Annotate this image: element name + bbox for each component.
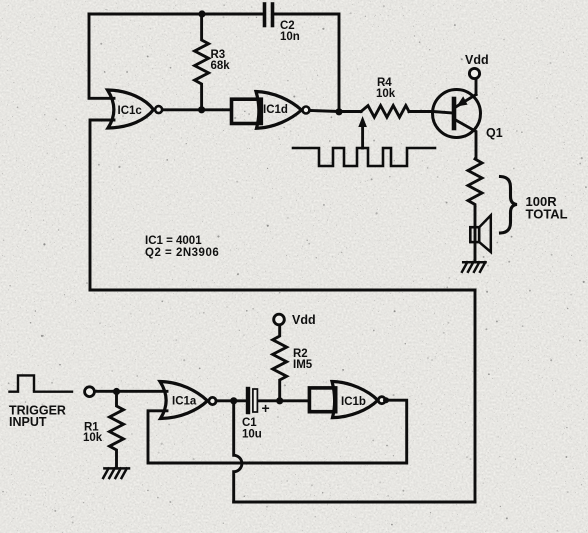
node monostable output junction bbox=[230, 397, 237, 404]
IC1a output bubble bbox=[209, 397, 216, 404]
brace 100R bbox=[501, 177, 518, 234]
svg-text:IC1d: IC1d bbox=[263, 104, 288, 116]
capacitor C1 bbox=[246, 389, 250, 412]
waveform square wave bbox=[293, 148, 435, 166]
speaker LS1 bbox=[479, 215, 491, 252]
power terminal Vdd (bottom) bbox=[274, 314, 285, 325]
NOR gate IC1b bbox=[332, 382, 378, 418]
IC1b input box (inputs tied) bbox=[309, 388, 335, 412]
Q1 emitter (to Vdd) bbox=[457, 79, 477, 107]
wire IC1c left vertical (top input from rail) bbox=[89, 14, 114, 98]
NOR gate IC1d bbox=[256, 92, 302, 129]
wire trigger to IC1a bbox=[95, 390, 168, 393]
svg-text:TOTAL: TOTAL bbox=[526, 207, 568, 222]
ground (R1) bbox=[103, 468, 129, 478]
resistor (speaker series) bbox=[468, 159, 482, 262]
node R3 bottom junction bbox=[198, 106, 205, 113]
node R2 bottom junction bbox=[276, 397, 283, 404]
wire feedback loop bottom horizontal bbox=[234, 501, 475, 504]
terminal trigger input bbox=[85, 387, 95, 397]
svg-text:Vdd: Vdd bbox=[465, 53, 489, 67]
svg-text:IC1 = 4001: IC1 = 4001 bbox=[145, 235, 202, 247]
resistor R2 bbox=[273, 325, 287, 400]
capacitor C2 bbox=[265, 4, 273, 26]
wire top rail bbox=[89, 13, 262, 16]
transistor Q1 bbox=[433, 90, 481, 138]
IC1d output bubble bbox=[303, 107, 310, 114]
wire C2 right to corner and down to output node bbox=[275, 14, 339, 111]
svg-text:10n: 10n bbox=[280, 31, 300, 43]
svg-text:IC1c: IC1c bbox=[118, 105, 143, 117]
wire IC1a lower input feedback bbox=[148, 400, 407, 463]
svg-text:IC1b: IC1b bbox=[341, 396, 366, 408]
node R1 junction bbox=[113, 388, 120, 395]
svg-text:Q1: Q1 bbox=[486, 126, 503, 140]
waveform arrow bbox=[361, 126, 364, 148]
ground (speaker) bbox=[462, 262, 486, 272]
wire IC1d output to R4 bbox=[310, 111, 362, 112]
resistor R3 bbox=[195, 14, 209, 110]
node R3 top junction bbox=[198, 10, 205, 17]
wire feedback loop right vertical bbox=[474, 290, 477, 502]
svg-text:C1: C1 bbox=[242, 417, 257, 429]
svg-text:68k: 68k bbox=[211, 60, 231, 72]
svg-text:10u: 10u bbox=[242, 429, 262, 441]
wire IC1c lower input from feedback loop bbox=[90, 120, 114, 290]
svg-text:+: + bbox=[262, 400, 270, 416]
node C2/R4 junction bbox=[335, 108, 342, 115]
wire IC1c output to IC1d bbox=[162, 108, 232, 111]
waveform trigger pulse bbox=[10, 375, 73, 391]
svg-text:Vdd: Vdd bbox=[292, 313, 316, 327]
wire R4 to Q1 base bbox=[409, 112, 452, 114]
IC1b output bubble bbox=[378, 397, 385, 404]
resistor R4 bbox=[361, 106, 409, 118]
wire C1 to IC1b bbox=[259, 399, 310, 402]
wire monostable output down with hop over feedback bbox=[234, 401, 242, 503]
wire IC1a output to C1 bbox=[216, 399, 248, 402]
node IC1b output dot bbox=[383, 397, 389, 403]
svg-text:Q2 = 2N3906: Q2 = 2N3906 bbox=[145, 247, 219, 259]
IC1c output bubble bbox=[155, 106, 162, 113]
svg-text:IM5: IM5 bbox=[293, 359, 313, 371]
power terminal Vdd (top) bbox=[469, 68, 479, 78]
svg-text:10k: 10k bbox=[83, 432, 103, 444]
NOR gate IC1a bbox=[160, 382, 208, 419]
svg-text:INPUT: INPUT bbox=[9, 415, 47, 429]
Q1 collector bbox=[457, 121, 477, 160]
IC1d input box (inputs tied) bbox=[232, 99, 262, 123]
svg-text:IC1a: IC1a bbox=[172, 396, 197, 408]
NOR gate IC1c bbox=[108, 90, 154, 128]
svg-text:10k: 10k bbox=[376, 88, 396, 100]
resistor R1 bbox=[110, 392, 124, 469]
wire feedback loop top horizontal bbox=[90, 289, 475, 292]
